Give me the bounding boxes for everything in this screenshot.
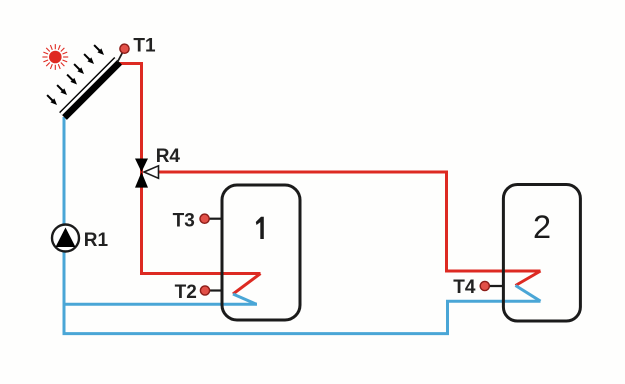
wire: blue branch from tank 1 coil to left vertical pipe [64,303,257,306]
svg-text:T2: T2 [175,282,197,303]
sensor T1 lead [118,52,124,63]
wire: blue return pipe (collector to bottom, along bottom, up to tank 2 coil) [64,117,541,334]
sun ray arrow 4 [72,62,86,76]
svg-text:T3: T3 [173,210,195,231]
sun ray arrow 3 [65,73,79,87]
heat exchanger coil in tank 1 (red part) [233,274,261,295]
svg-text:T1: T1 [133,35,156,56]
tank 2 [503,185,580,322]
sensor T3 lead [206,218,222,220]
tank 1 label "1" [256,217,264,239]
heat exchanger coil in tank 1 (blue part) [233,294,257,304]
sensor T1 dot [120,44,129,53]
svg-text:R1: R1 [84,230,109,251]
sun ray arrow 6 [92,43,106,57]
solar collector panel [59,57,122,120]
svg-text:T4: T4 [453,277,476,298]
heat exchanger coil in tank 2 (red part) [516,271,541,286]
wire: red branch from valve R4 to tank 2 coil [150,172,541,271]
sensor T3 dot [200,214,209,223]
sun ray arrow 1 [45,93,59,107]
valve R4 [135,159,159,188]
sun ray arrow 5 [82,52,96,66]
sun ray arrow 2 [55,83,69,97]
wire: red supply pipe from collector through valve down to tank 1 coil [117,64,261,274]
heat exchanger coil in tank 2 (blue part) [516,286,541,302]
sensor T4 lead [486,285,503,287]
svg-text:2: 2 [533,209,551,245]
svg-text:R4: R4 [156,146,181,167]
sensor T2 lead [206,289,222,291]
tank 1 [222,185,300,320]
sensor T2 dot [200,286,209,295]
pump R1 [52,225,79,252]
sun [42,44,68,70]
sensor T4 dot [480,281,489,290]
